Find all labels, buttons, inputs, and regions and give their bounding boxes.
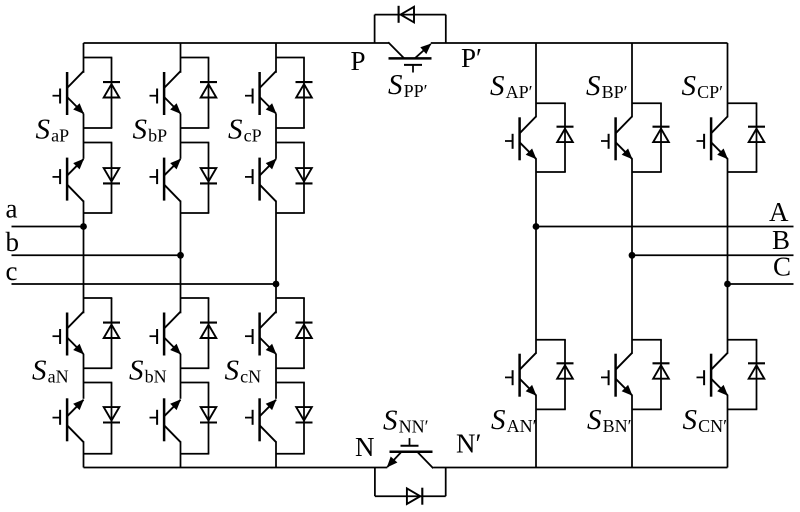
svg-text:S: S	[36, 114, 51, 146]
wire leg B vertical segments	[631, 43, 633, 468]
svg-text:cN: cN	[240, 367, 261, 387]
svg-text:NN′: NN′	[399, 417, 429, 437]
bidirectional switch ScP upper unit loop wires	[276, 58, 305, 129]
svg-text:S: S	[133, 114, 148, 146]
IGBT SCN′	[697, 353, 729, 397]
node a junction dot	[80, 223, 87, 230]
svg-text:S: S	[491, 404, 506, 436]
svg-text:S: S	[32, 355, 47, 387]
label SaN	[32, 355, 69, 387]
diode SbP upper	[200, 82, 217, 97]
IGBT SCP′	[697, 117, 729, 161]
node b junction dot	[177, 252, 184, 259]
node N′ label	[456, 429, 481, 459]
label SPP′	[388, 69, 428, 101]
svg-text:S: S	[490, 70, 505, 102]
top rail left (P side)	[84, 42, 390, 44]
node P′ label	[461, 43, 482, 73]
switch SbN lower unit loop wires	[181, 383, 210, 454]
node B junction dot	[629, 252, 636, 259]
IGBT ScP lower	[245, 158, 277, 202]
bidirectional switch ScN upper unit loop wires	[276, 298, 305, 368]
switch SbP lower unit loop wires	[181, 143, 210, 214]
diode SbN lower	[200, 407, 217, 422]
svg-text:bN: bN	[145, 367, 167, 387]
svg-text:c: c	[6, 256, 18, 286]
diode ScN lower	[296, 407, 313, 422]
svg-text:BN′: BN′	[603, 416, 632, 436]
switch SBN′ loop wires	[632, 340, 662, 410]
diode SBN′	[653, 363, 670, 378]
svg-text:N′: N′	[456, 429, 481, 459]
svg-text:cP: cP	[244, 126, 262, 146]
IGBT ScP upper	[245, 71, 277, 115]
switch ScP lower unit loop wires	[276, 143, 305, 214]
svg-text:bP: bP	[148, 126, 167, 146]
switch SPP′ freewheel loop wires	[375, 15, 446, 43]
IGBT SBP′	[601, 117, 633, 161]
svg-text:S: S	[587, 404, 602, 436]
svg-text:S: S	[228, 114, 243, 146]
diode SaN lower	[103, 407, 120, 422]
label b	[6, 227, 20, 257]
svg-text:S: S	[383, 405, 398, 437]
svg-text:BP′: BP′	[602, 82, 628, 102]
IGBT SaP lower	[53, 158, 85, 202]
diode SAP′	[557, 127, 574, 142]
wire leg b vertical segments	[180, 43, 182, 468]
node A junction dot	[533, 223, 540, 230]
IGBT ScN upper	[245, 312, 277, 356]
wire leg A vertical segments	[535, 43, 537, 468]
IGBT SAP′	[505, 117, 537, 161]
diode of SNN′ (points right)	[407, 488, 422, 505]
switch SCP′ loop wires	[728, 103, 758, 172]
IGBT ScN lower	[245, 398, 277, 442]
node P label	[351, 46, 366, 76]
svg-text:AP′: AP′	[506, 82, 533, 102]
bottom rail right (N′ side)	[433, 467, 727, 469]
label SaP	[36, 114, 70, 146]
svg-text:AN′: AN′	[507, 416, 537, 436]
IGBT SAN′	[505, 353, 537, 397]
switch SCN′ loop wires	[728, 340, 758, 410]
label SBN′	[587, 404, 632, 436]
diode SbN upper	[200, 323, 217, 338]
svg-text:PP′: PP′	[404, 81, 428, 101]
label ScN	[225, 355, 262, 387]
label B	[772, 225, 790, 255]
wire output line B	[632, 254, 794, 256]
IGBT SBN′	[601, 353, 633, 397]
svg-text:b: b	[6, 227, 20, 257]
bidirectional switch SaP upper unit loop wires	[84, 58, 113, 129]
top rail right (P′ side)	[431, 42, 728, 44]
label a	[6, 194, 18, 224]
label C	[773, 252, 791, 282]
bottom rail left (N side)	[84, 467, 388, 469]
bidirectional switch SaN upper unit loop wires	[84, 298, 113, 368]
switch SAP′ loop wires	[536, 103, 566, 172]
svg-text:S: S	[225, 355, 240, 387]
IGBT SaP upper	[53, 71, 85, 115]
label ScP	[228, 114, 262, 146]
switch SaP lower unit loop wires	[84, 143, 113, 214]
IGBT SNN′ (horizontal)	[387, 438, 433, 468]
svg-text:aN: aN	[48, 367, 69, 387]
switch ScN lower unit loop wires	[276, 383, 305, 454]
svg-text:N: N	[355, 432, 375, 462]
svg-text:a: a	[6, 194, 18, 224]
diode SaN upper	[103, 323, 120, 338]
switch SaN lower unit loop wires	[84, 383, 113, 454]
wire input line c	[12, 283, 277, 285]
wire leg C vertical segments	[727, 43, 729, 468]
label c	[6, 256, 18, 286]
label SCP′	[682, 70, 724, 102]
label SNN′	[383, 405, 429, 437]
diode SCN′	[748, 363, 765, 378]
label SbN	[129, 355, 167, 387]
node C junction dot	[724, 281, 731, 288]
IGBT SPP′ (horizontal)	[388, 42, 431, 72]
wire leg c vertical segments	[275, 43, 277, 468]
diode ScP lower	[296, 168, 313, 183]
svg-text:B: B	[772, 225, 790, 255]
node c junction dot	[273, 281, 280, 288]
diode SBP′	[653, 127, 670, 142]
diode of SPP′ (points left)	[399, 6, 414, 23]
svg-text:S: S	[129, 355, 144, 387]
diode SaP lower	[103, 168, 120, 183]
label SbP	[133, 114, 168, 146]
IGBT SaN lower	[53, 398, 85, 442]
IGBT SbN upper	[150, 312, 182, 356]
svg-text:C: C	[773, 252, 791, 282]
IGBT SbP lower	[150, 158, 182, 202]
diode SbP lower	[200, 168, 217, 183]
diode SAN′	[557, 363, 574, 378]
switch SBP′ loop wires	[632, 103, 662, 172]
svg-text:S: S	[682, 70, 697, 102]
svg-text:S: S	[683, 404, 698, 436]
wire output line A	[536, 226, 794, 228]
svg-text:S: S	[586, 70, 601, 102]
svg-text:A: A	[769, 197, 789, 227]
label SAP′	[490, 70, 533, 102]
svg-text:P: P	[351, 46, 366, 76]
switch SNN′ freewheel loop wires	[375, 468, 446, 497]
wire input line a	[12, 226, 84, 228]
wire output line C	[728, 283, 794, 285]
bidirectional switch SbP upper unit loop wires	[181, 58, 210, 129]
label A	[769, 197, 789, 227]
diode ScP upper	[296, 82, 313, 97]
svg-text:P′: P′	[461, 43, 482, 73]
diode SaP upper	[103, 82, 120, 97]
wire leg a vertical segments	[83, 43, 85, 468]
node N label	[355, 432, 375, 462]
svg-text:S: S	[388, 69, 403, 101]
switch SAN′ loop wires	[536, 340, 566, 410]
IGBT SbN lower	[150, 398, 182, 442]
svg-text:aP: aP	[51, 126, 69, 146]
diode SCP′	[748, 127, 765, 142]
svg-text:CN′: CN′	[698, 416, 727, 436]
svg-text:CP′: CP′	[697, 82, 723, 102]
label SBP′	[586, 70, 628, 102]
IGBT SbP upper	[150, 71, 182, 115]
label SCN′	[683, 404, 728, 436]
diode ScN upper	[296, 323, 313, 338]
IGBT SaN upper	[53, 312, 85, 356]
wire input line b	[12, 254, 181, 256]
bidirectional switch SbN upper unit loop wires	[181, 298, 210, 368]
label SAN′	[491, 404, 537, 436]
